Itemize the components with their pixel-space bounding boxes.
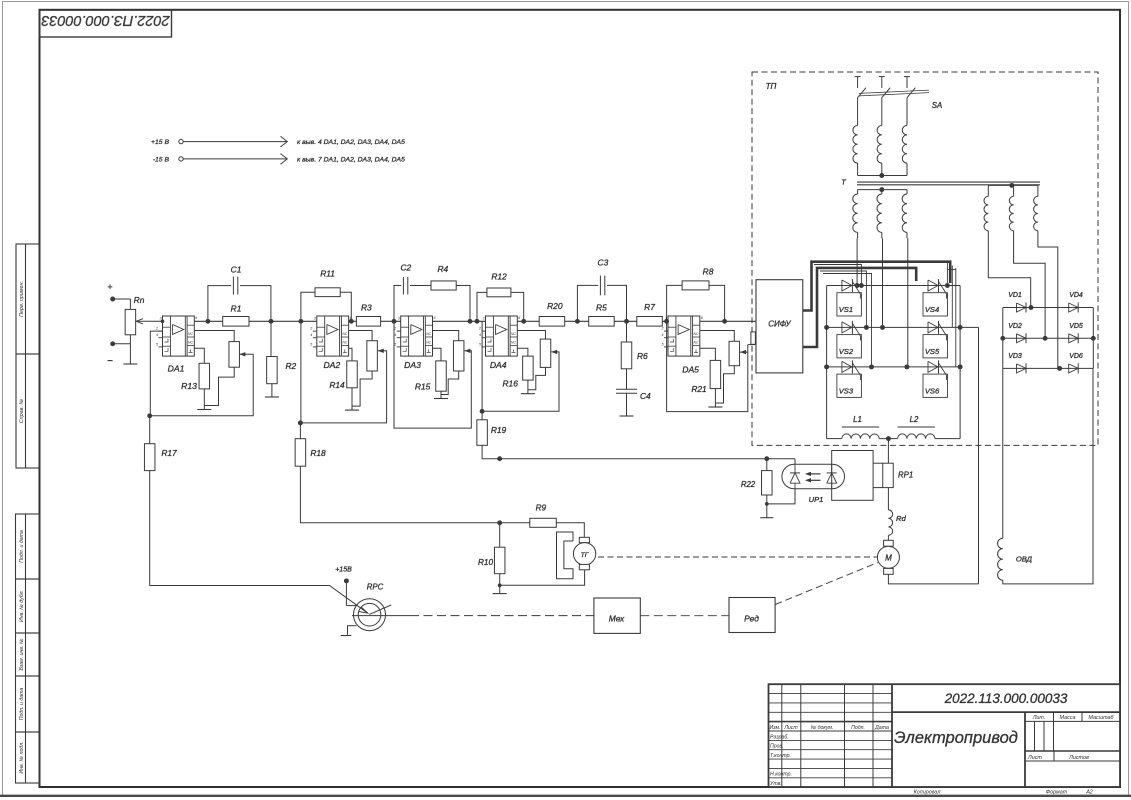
svg-text:NC: NC [511, 340, 516, 344]
svg-text:Лит.: Лит. [1032, 715, 1046, 721]
svg-text:Мех: Мех [609, 614, 625, 624]
svg-text:Подп.: Подп. [851, 725, 865, 731]
svg-text:3: 3 [314, 317, 316, 321]
svg-text:R22: R22 [741, 480, 756, 489]
svg-text:Справ. №: Справ. № [19, 399, 25, 424]
svg-text:Утв.: Утв. [770, 781, 782, 787]
svg-text:R17: R17 [161, 448, 177, 458]
svg-text:Листов: Листов [1068, 755, 1089, 761]
svg-text:R19: R19 [491, 425, 507, 435]
svg-text:Копировал: Копировал [914, 790, 941, 796]
svg-text:RPC: RPC [367, 583, 384, 592]
svg-text:VS5: VS5 [925, 347, 940, 356]
svg-text:-15 В: -15 В [153, 156, 170, 163]
svg-text:UP1: UP1 [809, 495, 824, 504]
svg-text:ОВД: ОВД [1016, 555, 1033, 564]
svg-text:Подп. и дата: Подп. и дата [19, 530, 25, 563]
svg-text:№ докум.: № докум. [811, 725, 834, 731]
svg-text:R10: R10 [478, 558, 493, 567]
svg-text:Электропривод: Электропривод [894, 729, 1018, 747]
svg-text:+: + [107, 282, 112, 292]
svg-text:Лист: Лист [1027, 755, 1042, 761]
svg-text:Rd: Rd [896, 514, 906, 523]
svg-text:SA: SA [932, 101, 942, 110]
svg-text:5: 5 [662, 342, 664, 346]
svg-text:М: М [885, 554, 892, 563]
svg-text:5: 5 [156, 342, 158, 346]
svg-text:Инв. № подл.: Инв. № подл. [19, 741, 25, 773]
svg-text:VD6: VD6 [1069, 353, 1083, 360]
svg-text:5: 5 [310, 342, 312, 346]
svg-text:Дата: Дата [874, 725, 889, 731]
svg-text:VS6: VS6 [925, 386, 940, 395]
svg-text:Т.контр.: Т.контр. [770, 753, 791, 759]
svg-text:R5: R5 [596, 303, 607, 313]
svg-text:2: 2 [478, 327, 481, 331]
svg-text:Н.контр.: Н.контр. [770, 772, 792, 778]
svg-text:Формат: Формат [1046, 790, 1068, 796]
svg-text:6: 6 [434, 316, 436, 320]
svg-text:Взам. инв. №: Взам. инв. № [19, 638, 25, 670]
svg-text:C2: C2 [400, 263, 411, 273]
svg-text:6: 6 [518, 316, 520, 320]
svg-text:3: 3 [398, 317, 400, 321]
svg-text:DA5: DA5 [682, 365, 699, 375]
svg-text:+15 В: +15 В [151, 139, 169, 146]
svg-text:R21: R21 [691, 384, 706, 394]
svg-text:Rn: Rn [134, 295, 145, 305]
svg-text:R4: R4 [437, 264, 448, 274]
svg-text:R18: R18 [310, 448, 326, 458]
svg-text:NC: NC [511, 332, 516, 336]
svg-text:СИФУ: СИФУ [768, 320, 791, 329]
svg-text:к выв. 4 DA1, DA2, DA3, DA4, D: к выв. 4 DA1, DA2, DA3, DA4, DA5 [297, 139, 405, 146]
svg-text:Изм.: Изм. [769, 725, 780, 731]
svg-text:NC: NC [188, 340, 193, 344]
svg-text:А2: А2 [1085, 790, 1093, 796]
svg-text:DA4: DA4 [490, 360, 507, 370]
svg-text:Масса: Масса [1060, 715, 1076, 721]
svg-text:5: 5 [479, 342, 481, 346]
svg-text:Подп. и дата: Подп. и дата [19, 688, 25, 721]
svg-text:VS2: VS2 [839, 347, 854, 356]
svg-text:R12: R12 [491, 272, 507, 282]
svg-text:ТП: ТП [766, 82, 777, 91]
svg-text:R7: R7 [644, 302, 655, 312]
svg-text:NC: NC [188, 332, 193, 336]
svg-text:VS1: VS1 [839, 305, 853, 314]
svg-text:VD4: VD4 [1069, 292, 1083, 299]
svg-text:R2: R2 [286, 361, 297, 371]
svg-text:4: 4 [156, 333, 158, 337]
svg-text:R9: R9 [536, 504, 547, 513]
svg-text:VS3: VS3 [839, 386, 854, 395]
svg-text:4: 4 [479, 333, 481, 337]
svg-text:3: 3 [483, 317, 485, 321]
svg-text:6: 6 [195, 316, 197, 320]
svg-text:NC: NC [426, 340, 431, 344]
svg-text:Перв. примен.: Перв. примен. [19, 281, 25, 317]
svg-text:NC: NC [426, 332, 431, 336]
svg-text:VS4: VS4 [925, 305, 939, 314]
svg-text:RP1: RP1 [898, 471, 913, 480]
svg-text:R14: R14 [329, 380, 345, 390]
svg-text:ТГ: ТГ [581, 552, 590, 559]
svg-text:VD2: VD2 [1008, 323, 1022, 330]
svg-text:DA3: DA3 [404, 360, 421, 370]
svg-text:к выв. 7 DA1, DA2, DA3, DA4, D: к выв. 7 DA1, DA2, DA3, DA4, DA5 [297, 157, 405, 164]
svg-text:DA1: DA1 [168, 364, 185, 374]
svg-text:6: 6 [701, 316, 703, 320]
svg-text:2022.ПЗ.000.00033: 2022.ПЗ.000.00033 [41, 12, 170, 28]
svg-text:C1: C1 [231, 265, 242, 275]
svg-text:R20: R20 [547, 301, 563, 311]
svg-text:R15: R15 [415, 382, 431, 392]
svg-text:R11: R11 [320, 269, 335, 279]
svg-text:NC: NC [694, 332, 699, 336]
svg-text:−: − [107, 356, 113, 367]
svg-text:2022.113.000.00033: 2022.113.000.00033 [944, 691, 1068, 706]
svg-text:T: T [841, 178, 847, 187]
svg-text:DA2: DA2 [323, 360, 340, 370]
svg-text:R3: R3 [361, 303, 372, 313]
svg-text:R13: R13 [181, 381, 197, 391]
svg-text:2: 2 [661, 327, 664, 331]
svg-text:C3: C3 [598, 258, 609, 268]
svg-text:VD1: VD1 [1008, 292, 1022, 299]
svg-text:R16: R16 [503, 379, 519, 389]
svg-text:R1: R1 [231, 304, 242, 314]
svg-text:Ред: Ред [744, 614, 759, 624]
svg-text:C4: C4 [640, 391, 651, 401]
svg-text:R8: R8 [703, 267, 714, 277]
svg-text:Лист: Лист [783, 725, 798, 731]
svg-text:NC: NC [342, 332, 347, 336]
svg-text:R6: R6 [637, 351, 648, 361]
svg-text:L1: L1 [853, 415, 862, 424]
svg-text:Инв. № дубл.: Инв. № дубл. [19, 590, 25, 622]
svg-text:VD5: VD5 [1069, 323, 1083, 330]
svg-text:L2: L2 [910, 415, 919, 424]
svg-text:4: 4 [310, 333, 312, 337]
svg-text:Пров.: Пров. [770, 744, 784, 750]
svg-text:VD3: VD3 [1008, 353, 1022, 360]
svg-text:NC: NC [342, 340, 347, 344]
svg-text:4: 4 [662, 333, 664, 337]
svg-text:+15В: +15В [335, 567, 352, 574]
svg-text:2: 2 [309, 327, 312, 331]
svg-text:3: 3 [160, 317, 162, 321]
svg-text:2: 2 [155, 327, 158, 331]
svg-text:Разраб.: Разраб. [770, 734, 789, 740]
svg-text:Масштаб: Масштаб [1088, 715, 1114, 721]
svg-text:NC: NC [694, 340, 699, 344]
